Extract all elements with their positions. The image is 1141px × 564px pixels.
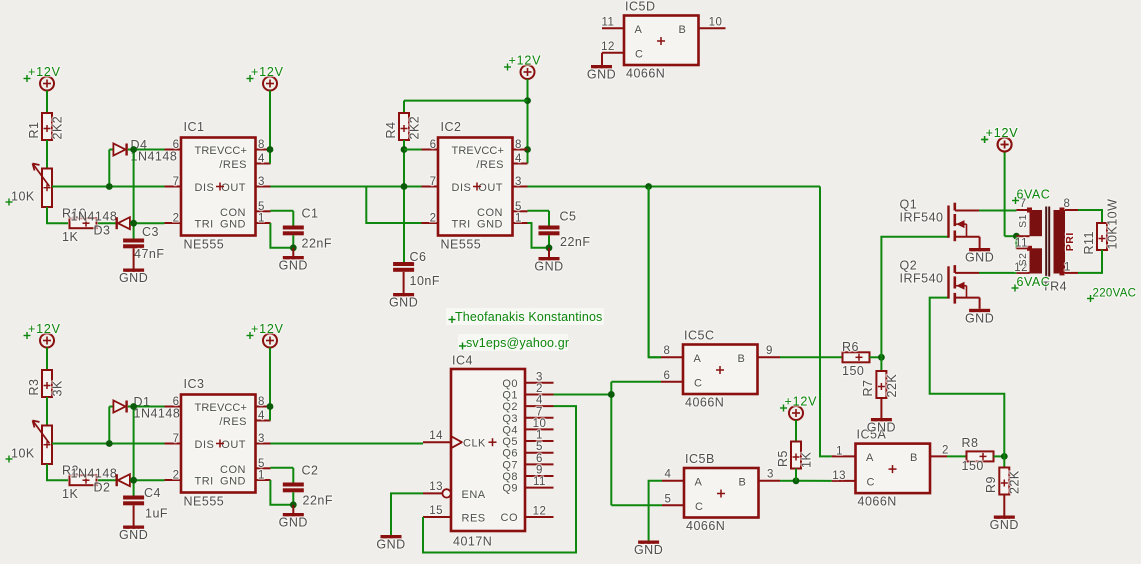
svg-text:VCC+: VCC+ (474, 145, 504, 157)
svg-text:13: 13 (429, 481, 443, 493)
svg-text:GND: GND (534, 260, 563, 274)
svg-text:47nF: 47nF (134, 247, 165, 261)
svg-text:11: 11 (602, 17, 615, 29)
svg-text:3: 3 (515, 176, 522, 188)
svg-text:C1: C1 (302, 207, 319, 221)
svg-text:/RES: /RES (219, 159, 247, 171)
svg-text:GND: GND (220, 219, 246, 231)
svg-text:GND: GND (279, 516, 308, 530)
svg-text:1K: 1K (62, 230, 78, 244)
svg-text:+12V: +12V (251, 65, 284, 79)
svg-text:1N4148: 1N4148 (134, 407, 181, 421)
svg-text:CLK: CLK (463, 438, 486, 450)
svg-text:6: 6 (173, 396, 180, 408)
svg-text:IC4: IC4 (452, 354, 473, 368)
svg-text:2: 2 (430, 213, 437, 225)
svg-text:GND: GND (867, 421, 896, 435)
svg-text:2K2: 2K2 (407, 116, 421, 140)
svg-text:6VAC: 6VAC (1017, 275, 1051, 289)
svg-text:R9: R9 (984, 476, 998, 493)
svg-text:10K: 10K (11, 447, 35, 461)
svg-text:3K: 3K (50, 380, 64, 396)
svg-text:CON: CON (220, 207, 246, 219)
svg-text:+12V: +12V (28, 65, 61, 79)
svg-text:A: A (694, 353, 702, 365)
svg-text:C6: C6 (410, 250, 427, 264)
svg-text:DIS: DIS (195, 182, 215, 194)
svg-text:C4: C4 (144, 486, 161, 500)
svg-text:B: B (738, 353, 746, 365)
svg-text:1: 1 (515, 213, 522, 225)
svg-text:1K: 1K (799, 452, 813, 468)
svg-text:2: 2 (942, 444, 949, 456)
svg-text:220VAC: 220VAC (1093, 288, 1137, 300)
svg-text:2: 2 (173, 213, 180, 225)
svg-text:3: 3 (767, 469, 774, 481)
svg-text:+12V: +12V (785, 395, 818, 409)
svg-text:2K2: 2K2 (50, 116, 64, 140)
svg-text:5: 5 (665, 493, 672, 505)
svg-text:GND: GND (634, 543, 663, 557)
svg-text:12: 12 (601, 41, 615, 53)
svg-text:CON: CON (477, 207, 503, 219)
svg-text:150: 150 (962, 459, 984, 473)
svg-text:1N4148: 1N4148 (71, 467, 118, 481)
svg-text:GND: GND (990, 518, 1019, 532)
svg-text:1: 1 (536, 430, 543, 442)
svg-text:7: 7 (173, 433, 180, 445)
svg-text:OUT: OUT (221, 439, 246, 451)
svg-text:IRF540: IRF540 (900, 271, 944, 285)
svg-text:3: 3 (536, 371, 543, 383)
svg-text:A: A (866, 452, 874, 464)
svg-text:1uF: 1uF (145, 507, 168, 521)
svg-text:5: 5 (258, 201, 265, 213)
svg-text:GND: GND (965, 311, 994, 325)
svg-text:2: 2 (536, 383, 543, 395)
svg-text:NE555: NE555 (184, 495, 225, 509)
svg-text:1N4148: 1N4148 (71, 210, 118, 224)
svg-text:GND: GND (119, 528, 148, 542)
svg-text:R4: R4 (384, 122, 398, 139)
svg-text:4066N: 4066N (686, 519, 725, 533)
svg-text:22nF: 22nF (302, 237, 333, 251)
svg-text:TRI: TRI (452, 219, 471, 231)
svg-text:14: 14 (429, 430, 443, 442)
svg-text:Q1: Q1 (900, 198, 918, 212)
svg-text:C: C (695, 501, 703, 513)
svg-text:4066N: 4066N (858, 495, 897, 509)
svg-text:Q2: Q2 (900, 258, 918, 272)
svg-text:A: A (635, 24, 643, 36)
svg-text:/RES: /RES (219, 416, 247, 428)
svg-text:1: 1 (1064, 262, 1071, 274)
svg-text:6: 6 (173, 139, 180, 151)
svg-text:2: 2 (173, 470, 180, 482)
svg-text:Q4: Q4 (502, 424, 518, 436)
svg-text:C: C (635, 49, 643, 61)
svg-text:11: 11 (1015, 238, 1028, 250)
svg-text:GND: GND (376, 538, 405, 552)
svg-text:DIS: DIS (195, 439, 215, 451)
svg-text:8: 8 (258, 139, 265, 151)
svg-text:D3: D3 (94, 224, 111, 238)
svg-text:150: 150 (842, 364, 864, 378)
svg-text:CON: CON (220, 464, 246, 476)
svg-text:Q9: Q9 (502, 483, 518, 495)
svg-text:S1: S1 (1017, 214, 1029, 228)
svg-text:DIS: DIS (452, 182, 472, 194)
svg-text:TRE: TRE (452, 145, 474, 157)
svg-text:R3: R3 (27, 379, 41, 396)
svg-text:13: 13 (832, 470, 846, 482)
svg-text:4: 4 (515, 153, 522, 165)
svg-text:Theofanakis Konstantinos: Theofanakis Konstantinos (455, 310, 602, 324)
svg-text:TRI: TRI (195, 476, 214, 488)
svg-text:D2: D2 (94, 481, 111, 495)
svg-text:GND: GND (279, 259, 308, 273)
svg-text:Q0: Q0 (502, 378, 518, 390)
svg-text:5: 5 (515, 201, 522, 213)
svg-text:IC1: IC1 (184, 120, 205, 134)
svg-text:7: 7 (536, 406, 543, 418)
svg-text:4066N: 4066N (685, 396, 724, 410)
svg-text:Q1: Q1 (502, 389, 518, 401)
svg-text:A: A (695, 477, 703, 489)
svg-text:+12V: +12V (251, 322, 284, 336)
svg-text:6VAC: 6VAC (1017, 188, 1051, 202)
svg-text:10K10W: 10K10W (1105, 199, 1119, 250)
svg-text:+12V: +12V (28, 322, 61, 336)
svg-text:11: 11 (533, 476, 546, 488)
svg-text:/RES: /RES (476, 159, 504, 171)
svg-text:6: 6 (664, 370, 671, 382)
svg-text:1K: 1K (62, 487, 78, 501)
svg-text:C2: C2 (302, 464, 319, 478)
svg-text:B: B (739, 477, 747, 489)
svg-text:6: 6 (430, 139, 437, 151)
svg-text:9: 9 (766, 345, 773, 357)
svg-text:4066N: 4066N (626, 67, 665, 81)
svg-text:1N4148: 1N4148 (131, 150, 178, 164)
svg-text:VCC+: VCC+ (217, 145, 247, 157)
svg-text:IC2: IC2 (441, 120, 462, 134)
svg-text:9: 9 (536, 465, 543, 477)
svg-text:Q2: Q2 (502, 401, 518, 413)
svg-text:1: 1 (836, 445, 843, 457)
svg-text:8: 8 (1064, 198, 1071, 210)
svg-text:TRE: TRE (195, 145, 217, 157)
svg-text:22nF: 22nF (303, 494, 334, 508)
svg-text:4: 4 (665, 469, 672, 481)
svg-text:IC5D: IC5D (625, 0, 655, 14)
svg-text:GND: GND (119, 271, 148, 285)
svg-text:10: 10 (709, 17, 723, 29)
svg-text:8: 8 (664, 345, 671, 357)
svg-text:Q3: Q3 (502, 413, 518, 425)
svg-text:IC5C: IC5C (684, 329, 714, 343)
svg-text:4: 4 (258, 410, 265, 422)
svg-text:OUT: OUT (221, 182, 246, 194)
svg-text:B: B (679, 24, 687, 36)
svg-text:10nF: 10nF (410, 274, 441, 288)
svg-text:22K: 22K (1008, 470, 1022, 494)
svg-text:4: 4 (536, 395, 543, 407)
svg-text:R1: R1 (27, 122, 41, 139)
svg-text:Q8: Q8 (502, 471, 518, 483)
svg-text:3: 3 (258, 433, 265, 445)
svg-text:R6: R6 (842, 340, 859, 354)
svg-text:10: 10 (533, 418, 547, 430)
svg-text:NE555: NE555 (184, 238, 225, 252)
svg-text:CO: CO (501, 512, 519, 524)
svg-text:OUT: OUT (478, 182, 503, 194)
svg-text:C5: C5 (560, 210, 577, 224)
svg-text:sv1eps@yahoo.gr: sv1eps@yahoo.gr (466, 336, 569, 350)
svg-text:R7: R7 (861, 380, 875, 397)
svg-text:IC5B: IC5B (685, 452, 715, 466)
svg-text:5: 5 (536, 441, 543, 453)
svg-text:GND: GND (587, 68, 616, 82)
svg-text:GND: GND (389, 296, 418, 310)
svg-text:Q6: Q6 (502, 448, 518, 460)
svg-text:C: C (694, 378, 702, 390)
svg-text:3: 3 (258, 176, 265, 188)
svg-text:12: 12 (533, 506, 547, 518)
svg-text:GND: GND (965, 251, 994, 265)
svg-text:C3: C3 (142, 225, 159, 239)
svg-text:PRI: PRI (1064, 232, 1076, 251)
svg-text:NE555: NE555 (441, 238, 482, 252)
svg-text:GND: GND (477, 219, 503, 231)
svg-text:VCC+: VCC+ (217, 402, 247, 414)
svg-text:22K: 22K (885, 374, 899, 398)
svg-text:RES: RES (462, 513, 486, 525)
svg-text:R11: R11 (1082, 231, 1096, 255)
svg-text:TRI: TRI (195, 219, 214, 231)
svg-text:TRE: TRE (195, 402, 217, 414)
svg-text:7: 7 (430, 176, 437, 188)
svg-text:1: 1 (258, 213, 265, 225)
svg-text:IRF540: IRF540 (900, 211, 944, 225)
svg-text:8: 8 (258, 396, 265, 408)
svg-text:+12V: +12V (509, 54, 542, 68)
svg-text:S2: S2 (1017, 253, 1029, 267)
svg-text:GND: GND (220, 476, 246, 488)
svg-text:10K: 10K (11, 190, 35, 204)
svg-text:6: 6 (536, 453, 543, 465)
svg-text:ENA: ENA (462, 489, 486, 501)
svg-text:8: 8 (515, 139, 522, 151)
svg-text:IC3: IC3 (184, 377, 205, 391)
svg-text:22nF: 22nF (560, 235, 591, 249)
svg-text:R5: R5 (776, 450, 790, 467)
svg-text:Q7: Q7 (502, 459, 518, 471)
svg-text:4: 4 (258, 153, 265, 165)
svg-text:C: C (867, 477, 875, 489)
svg-text:15: 15 (429, 505, 443, 517)
svg-text:4017N: 4017N (453, 535, 492, 549)
svg-text:+12V: +12V (986, 126, 1019, 140)
svg-text:1: 1 (258, 470, 265, 482)
svg-text:5: 5 (258, 458, 265, 470)
svg-text:7: 7 (173, 176, 180, 188)
svg-text:Q5: Q5 (502, 436, 518, 448)
svg-text:R8: R8 (962, 436, 979, 450)
svg-text:B: B (910, 452, 918, 464)
